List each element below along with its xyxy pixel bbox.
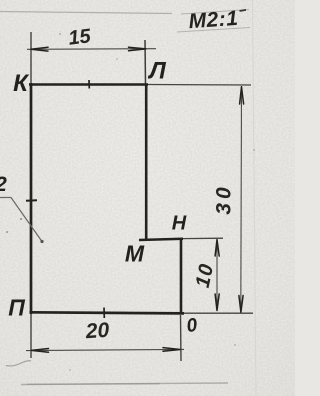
svg-text:М: М [125, 241, 145, 267]
svg-text:К: К [13, 70, 30, 97]
svg-text:П: П [8, 295, 25, 321]
svg-text:2: 2 [0, 173, 7, 196]
svg-text:30: 30 [213, 183, 236, 214]
svg-text:Н: Н [172, 213, 187, 235]
svg-text:20: 20 [84, 319, 110, 344]
svg-text:М2:1: М2:1 [188, 7, 239, 33]
svg-text:15: 15 [67, 25, 93, 50]
svg-text:Л: Л [147, 58, 166, 85]
